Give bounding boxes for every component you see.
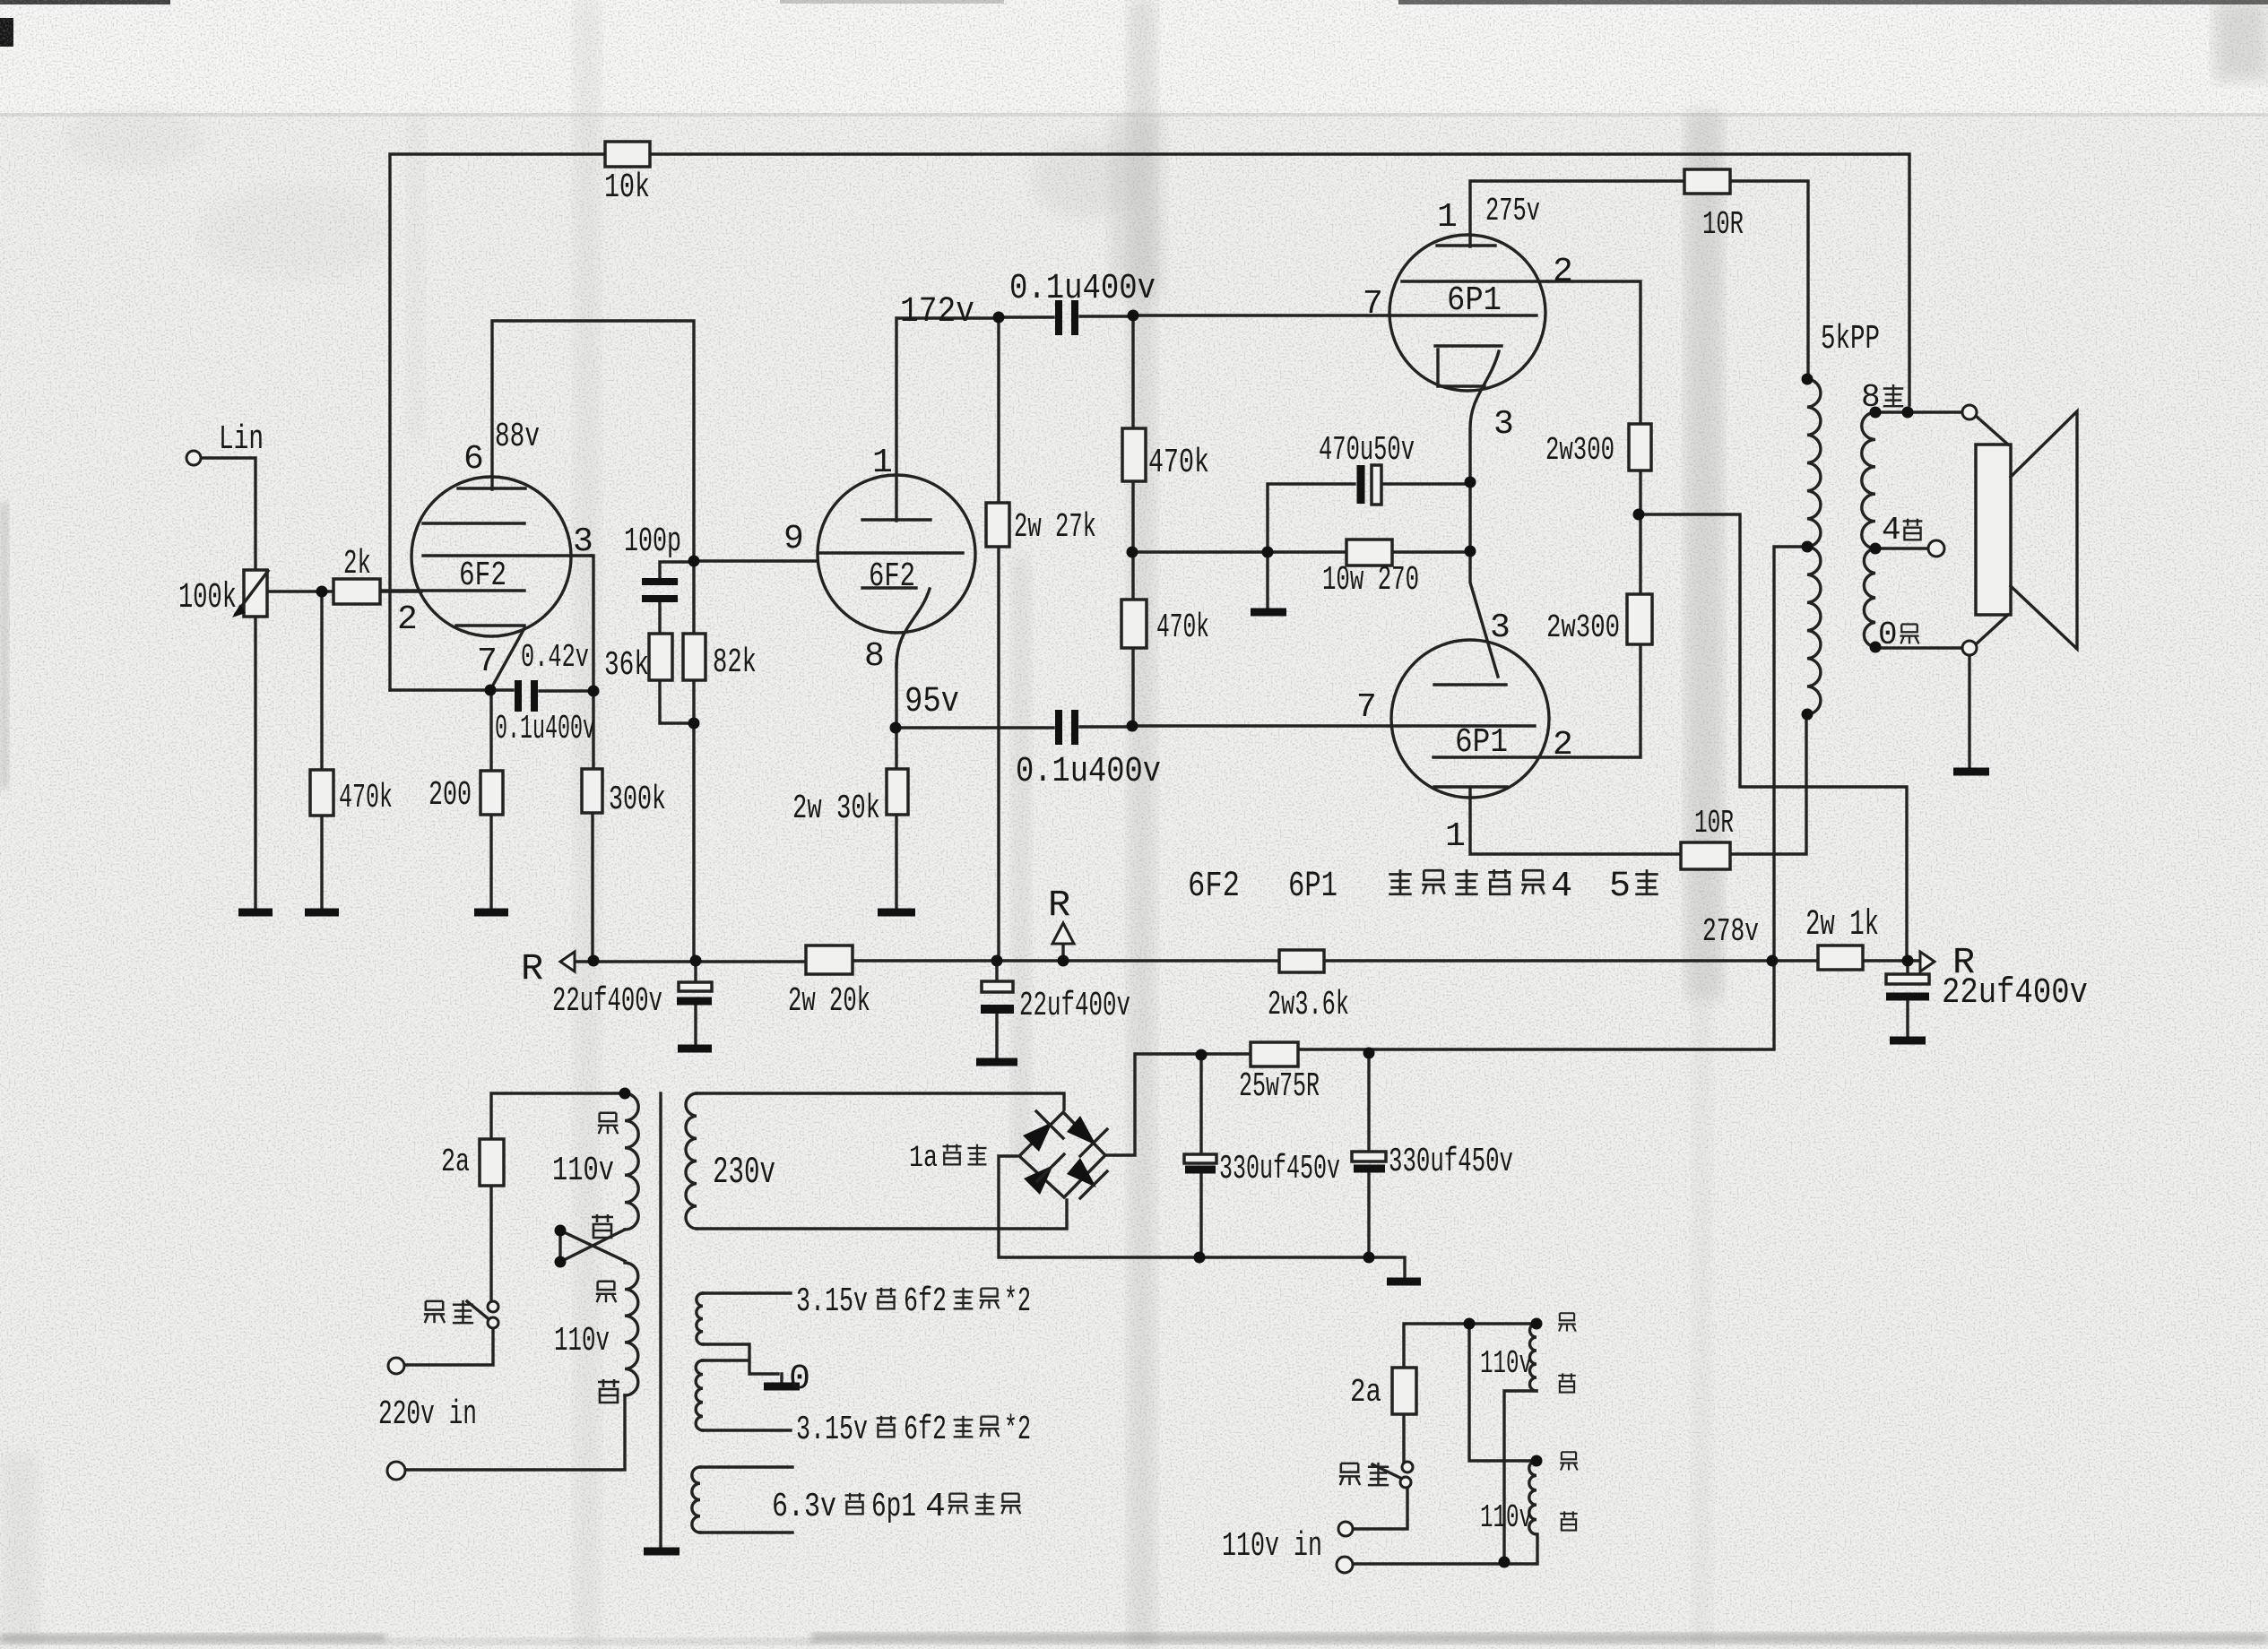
svg-text:6F2: 6F2 [1188,867,1240,907]
right transformer 110v winding 1 [1530,1324,1537,1391]
svg-text:22uf400v: 22uf400v [552,982,662,1021]
svg-text:5kPP: 5kPP [1821,320,1880,358]
svg-text:9: 9 [783,520,804,558]
wire main B+ rail [574,961,1920,962]
wire 6.3v leads [700,1467,792,1532]
wire 220v terminal 2 to primary B bottom [405,1395,625,1470]
wire V1 pin3 down to 0.1u and 300k [591,556,593,961]
mains transformer secondary 3.15v lower [696,1360,703,1430]
label switch right [1339,1463,1360,1485]
wire mains fuse top to primary [491,1093,625,1301]
wire 22uf400v no3 [1906,961,1909,1037]
svg-text:3: 3 [1490,609,1511,647]
svg-text:110v in: 110v in [1222,1527,1322,1566]
svg-text:7: 7 [477,643,498,681]
ground 22uf no3 [1890,1037,1926,1045]
wire transformer core earth [659,1093,662,1548]
wire 330uf450v no2 leads [1367,1053,1370,1257]
svg-text:25w75R: 25w75R [1239,1067,1320,1106]
svg-text:2w 1k: 2w 1k [1805,905,1879,945]
wire screen node B+ feed [1639,514,1907,961]
wire bridge AC top from 230v [697,1093,1064,1109]
wire 6P1 top cathode pin3 down [1470,351,1499,551]
ground 470k input [305,909,339,917]
wire 82k branch [692,565,695,728]
svg-text:0.1u400v: 0.1u400v [1016,752,1161,792]
svg-text:6P1: 6P1 [1288,867,1337,907]
output transformer 5kPP secondary upper [1862,412,1875,548]
wire right switch to 110v terminal 1 [1353,1488,1407,1529]
mains transformer primary 110v lower [625,1263,638,1395]
capacitor 0.1u400v V1 cathode [518,680,534,712]
ground psu minus [1387,1278,1421,1286]
svg-text:2w300: 2w300 [1545,432,1614,469]
wire 6P1 top screen pin2 through 2w300 pair [1535,281,1640,757]
node 220v terminal 2 [387,1462,405,1480]
svg-text:2a: 2a [1350,1374,1381,1411]
svg-text:330uf450v: 330uf450v [1219,1150,1340,1188]
wire 36k82k node down to rail [692,723,695,961]
capacitor 100p [642,582,678,599]
svg-text:300k: 300k [609,781,666,819]
wire right fuse and 110v windings top [1404,1324,1537,1462]
wire right 110v terminal 2 rail [1353,1534,1537,1564]
svg-text:22uf400v: 22uf400v [1942,973,2088,1014]
capacitor 330uf450v no1 [1184,1154,1216,1163]
tube V3 6P1 top envelope [1389,235,1545,391]
wire V1 plate to coupling node (pin 6 over the top) [492,321,694,557]
svg-text:330uf450v: 330uf450v [1389,1143,1513,1181]
mains transformer secondary 6.3v [692,1467,700,1532]
node 110v terminal 1 [1338,1522,1353,1536]
svg-text:0.42v: 0.42v [521,639,589,676]
wire switch to 220v terminal 1 [405,1328,493,1365]
svg-text:3.15v: 3.15v [796,1411,868,1449]
node Lin terminal [186,451,201,465]
wire OPT secondary terminals [1875,412,1962,648]
svg-text:*2: *2 [1004,1282,1031,1321]
wire 22uf400v no1 [694,961,697,1045]
wire pot wiper to 2k [267,590,421,592]
capacitor 0.1u400v bottom coupling [1059,710,1075,745]
mains transformer secondary 3.15v upper [697,1293,703,1344]
wire 3.15v top lead [703,1291,791,1294]
svg-text:2w 30k: 2w 30k [792,790,880,828]
resistor 82k [683,634,706,680]
wire right winding1 bottom to rail [1504,1391,1537,1564]
switch contacts right [1402,1462,1413,1472]
wire 100p branch [660,562,694,723]
speaker terminal diagonals [1976,416,2008,644]
node R rail right arrow [1920,952,1935,971]
svg-text:3: 3 [573,522,593,561]
svg-text:2k: 2k [343,545,371,583]
ground speaker [1953,768,1989,776]
resistor 2w 1k [1818,945,1863,970]
resistor 25w75R [1251,1042,1298,1066]
wire speaker ground [1968,656,1970,768]
node 110v terminal 2 [1337,1557,1353,1573]
capacitor 470u50v cathode bypass [1357,465,1365,504]
wire bridge AC bottom from 230v [697,1200,1067,1229]
tube V2 6F2 electrodes [819,520,963,667]
svg-text:Lin: Lin [219,420,264,459]
svg-text:1: 1 [1445,817,1466,856]
wire bias node to ground tap [1133,552,1470,609]
label red black windings right [1558,1313,1575,1331]
resistor 2w3.6k [1279,950,1324,972]
wire right winding2 top to top junction [1469,1324,1537,1461]
wire coupling node to V2 grid pin 9 [694,559,818,562]
wire OPT centre tap to 278v rail and 25w75R line [1105,547,1807,1155]
resistor 2w300 screen top [1629,424,1651,471]
svg-text:6.3v: 6.3v [772,1488,836,1526]
wire 3.15v centre 0 tap [703,1344,782,1383]
svg-text:6f2: 6f2 [904,1282,947,1321]
resistor 2w 30k cathode [887,769,908,815]
wire feedback top line [390,154,1909,690]
svg-text:2a: 2a [441,1144,470,1180]
resistor 2w 27k plate load [986,503,1009,547]
svg-text:2w 27k: 2w 27k [1014,508,1096,547]
svg-text:275v: 275v [1485,193,1540,229]
fuse 2a left [480,1139,504,1186]
wire 22uf400v no2 [995,961,998,1058]
wire 470u50v cap leads [1268,484,1470,552]
node 220v terminal 1 [388,1358,404,1374]
wire V2 cathode 95v node [895,664,897,909]
svg-text:110v: 110v [1480,1499,1532,1536]
diode D1 NW [1023,1122,1052,1152]
label switch left [424,1301,445,1323]
svg-text:6P1: 6P1 [1447,281,1502,320]
ground transformer core [644,1548,680,1556]
wire 172v node to 0.1u top cap [999,316,1133,317]
svg-text:100p: 100p [624,522,681,561]
ground 22uf no2 [976,1058,1017,1066]
node Lin input wire [201,458,255,570]
svg-text:1: 1 [872,444,893,482]
capacitor 22uf400v no1 [679,982,712,991]
potentiometer 100k [244,570,267,617]
resistor 10k feedback [605,142,650,167]
output transformer 5kPP secondary lower [1864,548,1875,647]
svg-text:6p1: 6p1 [871,1488,916,1526]
svg-text:4: 4 [1551,867,1572,907]
tube V4 6P1 bottom envelope [1391,640,1549,798]
wire cathode node to 6P1 bottom cathode [1470,551,1498,677]
tube V4 6P1 electrodes [1433,685,1535,787]
resistor 2w 20k [806,945,853,974]
tube V3 6P1 electrodes [1402,246,1547,386]
diode D2 NE [1067,1116,1096,1145]
svg-text:22uf400v: 22uf400v [1019,987,1130,1025]
svg-text:0: 0 [789,1360,810,1400]
svg-text:1: 1 [1437,198,1458,237]
svg-text:1a: 1a [909,1142,938,1176]
node R rail left arrow [560,952,575,971]
diode D3 SW [1024,1165,1053,1195]
wire 3.15v bottom lead [703,1429,791,1431]
resistor 470k grid top [1122,428,1146,481]
wire 330uf450v no1 leads [1199,1055,1202,1257]
node speaker terminal 0 black [1962,641,1977,655]
svg-text:230v: 230v [713,1151,775,1194]
node R rail up arrow [1052,923,1074,944]
svg-text:2w3.6k: 2w3.6k [1268,986,1349,1024]
capacitor 22uf400v no2 [982,981,1013,992]
tube V1 6F2 envelope [411,477,571,636]
svg-text:8: 8 [864,637,885,676]
speaker body [1976,445,2011,615]
wire pot bottom to ground [254,617,256,909]
svg-text:2w 20k: 2w 20k [788,982,870,1021]
resistor 10R top [1684,169,1730,194]
wire V2 plate pin1 up and to 172v node [896,318,999,521]
tube V1 6F2 electrodes [382,488,591,688]
svg-text:6P1: 6P1 [1455,723,1508,762]
svg-text:110v: 110v [552,1152,614,1190]
svg-text:6F2: 6F2 [869,557,915,596]
wire V1 cathode junction to 0.1u cap [490,690,593,691]
svg-text:10w 270: 10w 270 [1322,561,1419,600]
wire bridge minus to ground line [999,1156,1405,1278]
mains transformer secondary 230v [686,1093,697,1229]
resistor 470k grid bottom [1121,600,1147,648]
capacitor 22uf400v no3 [1886,974,1929,984]
svg-text:0.1u400v: 0.1u400v [495,710,595,748]
svg-text:2: 2 [397,600,418,639]
svg-text:100k: 100k [178,578,237,618]
svg-text:10k: 10k [604,168,650,207]
wire 0.1u top to 6P1 pin7 grid [1133,314,1537,316]
tube V2 6F2 envelope [818,475,975,633]
ground pot [238,909,273,917]
svg-text:R: R [521,947,543,990]
wire V1 cathode down through 200 [489,690,492,909]
resistor 2k grid stopper [333,579,380,604]
ground 22uf no1 [678,1045,712,1053]
wire 95v to 0.1u bottom cap [896,727,1133,728]
svg-text:200: 200 [428,776,472,815]
svg-text:2: 2 [1553,726,1573,764]
svg-text:R: R [1048,884,1070,927]
switch contacts left [488,1301,498,1312]
svg-text:*2: *2 [1004,1411,1031,1449]
svg-text:4: 4 [1882,512,1901,548]
svg-text:7: 7 [1363,285,1383,324]
svg-text:470u50v: 470u50v [1319,431,1415,470]
resistor 300k grid leak [582,769,602,813]
svg-text:220v in: 220v in [378,1395,477,1434]
svg-text:7: 7 [1356,688,1377,727]
label red black windings left [598,1113,619,1134]
svg-text:8: 8 [1861,379,1881,416]
svg-text:4: 4 [925,1488,946,1526]
svg-text:3.15v: 3.15v [796,1282,868,1321]
node speaker terminal 8 green [1962,405,1977,419]
svg-text:172v: 172v [900,292,974,332]
ground bias tap [1251,609,1286,617]
resistor 10R bottom [1681,842,1730,869]
svg-text:88v: 88v [495,418,540,456]
diode D4 SE [1067,1158,1096,1187]
ground 200 cathode [474,909,508,917]
wire 6P1 bottom plate pin1 to 10R and OPT [1470,714,1806,854]
svg-text:0: 0 [1878,617,1898,653]
svg-text:2: 2 [1553,253,1573,291]
resistor 36k [649,634,672,680]
ground 0 tap [764,1383,800,1391]
svg-text:278v: 278v [1702,913,1759,950]
potentiometer wiper arrow [236,571,268,614]
capacitor 330uf450v no2 [1352,1152,1386,1161]
ground 2w30k cathode [878,909,915,917]
right transformer 110v winding 2 [1529,1461,1537,1534]
svg-text:36k: 36k [604,646,649,685]
wire R tap arrow stem [1061,945,1064,961]
resistor 470k input [310,770,333,816]
svg-text:110v: 110v [554,1322,610,1360]
svg-text:6f2: 6f2 [904,1411,947,1449]
bridge rectifier 1a diamond [1019,1112,1105,1197]
svg-text:5: 5 [1609,867,1631,907]
wire 0.1u bottom to 6P1 bottom grid pin7 [1133,724,1535,727]
svg-text:3: 3 [1493,405,1514,444]
node speaker terminal 4 yellow [1928,540,1944,557]
svg-text:10R: 10R [1694,805,1734,842]
svg-text:0.1u400v: 0.1u400v [1009,269,1156,309]
wire 6P1 top plate pin1 to 10R and OPT [1470,181,1808,379]
fuse 2a right [1392,1368,1416,1414]
mains transformer primary 110v upper [625,1093,638,1230]
resistor 200 cathode [480,771,503,815]
resistor 10w 270 bias [1346,540,1392,565]
wire feedback to cathode [390,688,490,691]
resistor 2w300 screen bottom [1627,594,1652,644]
svg-text:6F2: 6F2 [459,557,506,595]
svg-text:2w300: 2w300 [1546,609,1620,646]
svg-text:6: 6 [463,440,484,479]
svg-text:82k: 82k [713,643,757,682]
svg-text:470k: 470k [339,779,393,817]
wire primary cross link [560,1230,625,1262]
svg-text:470k: 470k [1156,609,1209,647]
output transformer 5kPP primary [1807,379,1821,714]
wire 470k grid chain top tube [1131,316,1134,726]
wire 2w27k chain [997,317,1000,961]
svg-text:470k: 470k [1148,444,1209,482]
svg-text:10R: 10R [1702,206,1744,243]
svg-text:110v: 110v [1480,1345,1532,1382]
black top-left corner mark [0,18,13,47]
capacitor 0.1u400v top coupling [1059,300,1075,335]
speaker horn [2011,411,2077,649]
svg-text:95v: 95v [905,682,959,722]
wire 470k grid leak leads [320,591,323,909]
